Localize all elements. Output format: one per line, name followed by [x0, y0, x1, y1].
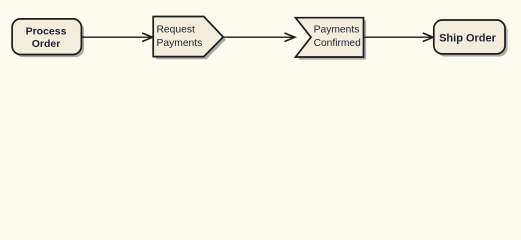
svg-text:Confirmed: Confirmed	[314, 38, 361, 49]
svg-text:Request: Request	[157, 25, 195, 36]
svg-text:Order: Order	[32, 38, 61, 50]
svg-text:Payments: Payments	[314, 25, 360, 36]
svg-text:Process: Process	[26, 26, 67, 38]
svg-text:Payments: Payments	[157, 38, 203, 49]
svg-text:Ship Order: Ship Order	[439, 32, 497, 44]
